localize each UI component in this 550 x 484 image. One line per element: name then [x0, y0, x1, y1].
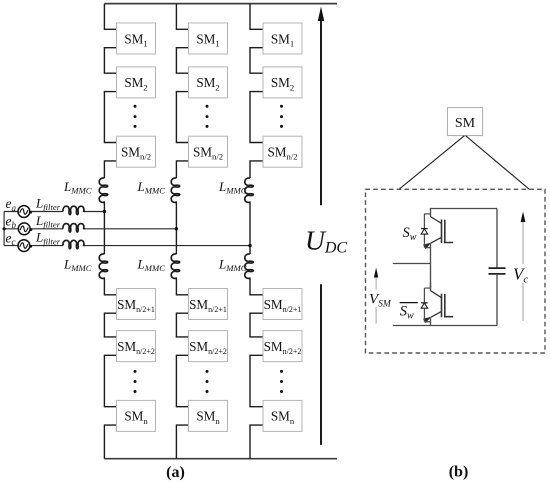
submodule SMn/2 box (leg 2)	[189, 136, 228, 167]
submodule SM1 box (leg 2)	[189, 23, 228, 54]
wire: leg 1 upper-arm zigzag connections	[104, 4, 116, 178]
submodule SMn box (leg 2)	[189, 400, 228, 431]
wire: leg 1 middle segment through phase node	[103, 204, 105, 255]
inductor L_MMC upper arm leg 2	[171, 178, 180, 204]
wire: phase b horizontal line	[4, 228, 176, 230]
DC top bus	[104, 3, 337, 5]
submodule SMn/2+2 box (leg 1)	[117, 331, 156, 362]
inductor L_filter phase b	[63, 224, 85, 232]
ellipsis dots lower arm leg 1	[134, 370, 137, 393]
submodule SMn/2 box (leg 3)	[263, 136, 302, 167]
svg-text:LMMC: LMMC	[137, 179, 166, 196]
svg-text:UDC: UDC	[305, 225, 347, 257]
transistor Q2 lower switch (IGBT with anti-parallel diode)	[423, 282, 453, 323]
ellipsis dots lower arm leg 2	[206, 370, 209, 393]
node: neutral junction e_b	[3, 227, 6, 230]
svg-text:ec: ec	[6, 230, 16, 247]
wire: leg 1 lower-arm zigzag connections	[104, 280, 116, 459]
submodule SMn box (leg 3)	[263, 400, 302, 431]
V_SM voltage arrow	[374, 268, 378, 324]
submodule SM1 box (leg 1)	[117, 23, 156, 54]
inductor L_MMC upper arm leg 1	[99, 178, 108, 204]
AC source e_b	[18, 223, 32, 235]
svg-text:LMMC: LMMC	[218, 179, 247, 196]
wire: leg 3 lower-arm zigzag connections	[250, 280, 263, 459]
submodule SMn/2+1 box (leg 1)	[117, 289, 156, 320]
submodule SM2 box (leg 2)	[189, 67, 228, 98]
U_DC measurement arrow	[318, 7, 324, 445]
ellipsis dots lower arm leg 3	[280, 370, 283, 393]
submodule SMn/2+1 box (leg 3)	[263, 289, 302, 320]
ellipsis dots upper arm leg 2	[206, 105, 209, 128]
submodule SMn/2+2 box (leg 3)	[263, 331, 302, 362]
svg-text:(b): (b)	[449, 464, 469, 481]
callout line right	[466, 136, 530, 190]
inductor L_filter phase c	[63, 240, 85, 248]
svg-text:eb: eb	[6, 214, 17, 231]
callout line left	[399, 136, 464, 190]
diode anti-parallel of Q1 upper switch	[421, 214, 430, 248]
svg-text:Lfilter: Lfilter	[35, 230, 61, 247]
inductor L_MMC lower arm leg 1	[99, 254, 108, 280]
svg-text:(a): (a)	[166, 464, 185, 481]
svg-text:Lfilter: Lfilter	[35, 213, 61, 230]
wire: bridge bottom rail	[393, 325, 497, 327]
svg-text:ea: ea	[6, 196, 17, 213]
submodule SM2 box (leg 1)	[117, 67, 156, 98]
diode anti-parallel of Q2 lower switch	[421, 288, 430, 322]
capacitor C (submodule)	[489, 209, 506, 326]
inductor L_filter phase a	[63, 206, 85, 214]
wire: leg 2 lower-arm zigzag connections	[176, 280, 188, 459]
wire: AC neutral left bus	[3, 212, 5, 246]
svg-text:LMMC: LMMC	[137, 256, 166, 273]
inductor L_MMC lower arm leg 3	[245, 254, 254, 280]
svg-text:SM: SM	[455, 116, 476, 131]
submodule SMn/2+2 box (leg 2)	[189, 331, 228, 362]
DC bottom bus	[104, 458, 337, 460]
inductor L_MMC upper arm leg 3	[245, 178, 254, 204]
svg-text:LMMC: LMMC	[63, 256, 92, 273]
node: phase b to leg 2 junction	[175, 227, 178, 230]
V_c voltage arrow	[521, 212, 526, 322]
submodule SMn/2+1 box (leg 2)	[189, 289, 228, 320]
ellipsis dots upper arm leg 3	[280, 105, 283, 128]
wire: leg 2 middle segment through phase node	[175, 204, 177, 255]
label V_SM	[369, 290, 393, 310]
AC source e_a	[18, 206, 32, 218]
ellipsis dots upper arm leg 1	[134, 105, 137, 128]
dashed submodule boundary box	[366, 189, 546, 353]
AC source e_c	[18, 240, 32, 252]
SM reference box (b)	[447, 108, 482, 136]
submodule SM2 box (leg 3)	[263, 67, 302, 98]
label V_c	[513, 264, 533, 286]
svg-text:LMMC: LMMC	[63, 179, 92, 196]
wire: leg 2 upper-arm zigzag connections	[176, 4, 188, 178]
svg-text:LMMC: LMMC	[218, 256, 247, 273]
node: phase a to leg 1 junction	[103, 210, 106, 213]
svg-text:Sw: Sw	[403, 225, 417, 243]
label S_w bar (overline)	[400, 303, 418, 322]
svg-text:Sw: Sw	[400, 304, 414, 322]
wire: leg 3 middle segment through phase node	[249, 204, 251, 255]
wire: leg 3 upper-arm zigzag connections	[250, 4, 263, 178]
wire: SM output terminal (midpoint)	[393, 263, 431, 265]
svg-text:Lfilter: Lfilter	[35, 196, 61, 213]
submodule SMn/2 box (leg 1)	[117, 136, 156, 167]
wire: phase a horizontal line	[4, 211, 104, 213]
node: phase c to leg 3 junction	[248, 244, 251, 247]
submodule SM1 box (leg 3)	[263, 23, 302, 54]
wire: lower switch emitter to bottom rail	[430, 322, 432, 326]
wire: leg between switches (midpoint)	[430, 248, 432, 289]
wire: phase c horizontal line	[4, 245, 250, 247]
inductor L_MMC lower arm leg 2	[171, 254, 180, 280]
submodule SMn box (leg 1)	[117, 400, 156, 431]
wire: bridge top rail	[431, 208, 498, 210]
transistor Q1 upper switch (IGBT with anti-parallel diode)	[423, 208, 453, 249]
